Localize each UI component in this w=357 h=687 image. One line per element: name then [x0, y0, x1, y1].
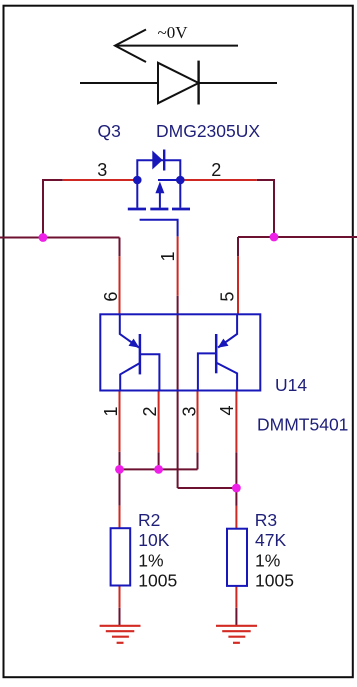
- svg-text:Q3: Q3: [98, 121, 121, 141]
- svg-text:6: 6: [101, 292, 121, 302]
- svg-text:1005: 1005: [138, 571, 177, 591]
- svg-text:DMG2305UX: DMG2305UX: [156, 121, 260, 141]
- svg-text:2: 2: [140, 406, 160, 416]
- svg-text:3: 3: [97, 160, 107, 180]
- svg-text:1%: 1%: [138, 550, 163, 570]
- svg-text:DMMT5401: DMMT5401: [257, 415, 348, 435]
- svg-text:4: 4: [217, 405, 237, 415]
- svg-text:2: 2: [211, 160, 221, 180]
- svg-text:U14: U14: [275, 375, 307, 395]
- svg-text:1: 1: [158, 251, 178, 261]
- svg-text:1%: 1%: [255, 550, 280, 570]
- svg-text:1005: 1005: [255, 571, 294, 591]
- svg-text:10K: 10K: [138, 530, 169, 550]
- svg-text:R3: R3: [255, 510, 277, 530]
- svg-text:~0V: ~0V: [158, 23, 189, 42]
- svg-text:1: 1: [101, 406, 121, 416]
- svg-text:3: 3: [180, 406, 200, 416]
- svg-text:R2: R2: [138, 510, 160, 530]
- svg-text:5: 5: [218, 292, 238, 302]
- svg-text:47K: 47K: [255, 530, 286, 550]
